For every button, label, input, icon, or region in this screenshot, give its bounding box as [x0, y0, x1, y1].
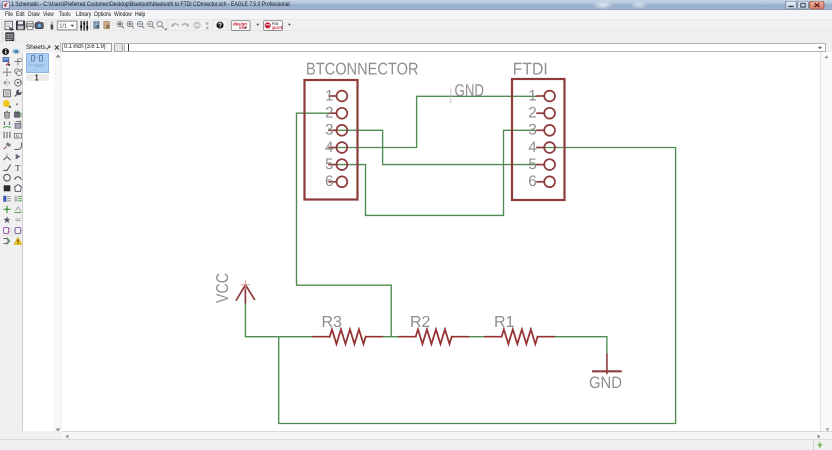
FTDI pin 4: [537, 142, 555, 153]
sheets panel: [23, 52, 61, 431]
icon rotate: [15, 79, 22, 86]
icon zoom select: [148, 21, 155, 28]
button designlink: [231, 20, 250, 30]
icon net: [14, 196, 22, 202]
icon image: [35, 21, 43, 28]
icon mark: [15, 58, 22, 65]
wire R3 to R2: [382, 336, 399, 338]
icon attribute: [4, 216, 11, 223]
icon redo: [182, 23, 189, 26]
BTCONNECTOR pin 5: [329, 159, 347, 170]
icon grid blue: [94, 21, 99, 28]
icon rect: [4, 185, 11, 191]
icon mirror: [4, 79, 11, 86]
svg-text:R2: R2: [410, 314, 431, 331]
coordinate box: [62, 43, 112, 52]
svg-text:GND: GND: [455, 81, 485, 100]
svg-text:3: 3: [325, 122, 334, 139]
svg-text:5: 5: [528, 156, 537, 173]
icon bus: [3, 196, 11, 202]
sheets scrollbar: [54, 52, 62, 431]
FTDI pin 2: [537, 108, 555, 119]
FTDI pin 3: [537, 125, 555, 136]
svg-text:1/1: 1/1: [59, 23, 67, 29]
svg-text:6: 6: [325, 173, 334, 190]
resistor R3: [313, 329, 382, 344]
icon replace: [15, 121, 21, 128]
icon errors: [14, 237, 22, 244]
icon cut: [3, 100, 11, 108]
icon smash: [4, 142, 11, 149]
icon copy: [15, 69, 22, 76]
icon group: [4, 90, 11, 97]
icon use: [51, 21, 54, 29]
icon save: [16, 21, 25, 30]
wire FTDI pin4 bottom loop: [279, 148, 676, 424]
icon polygon: [15, 185, 22, 192]
svg-text:R1: R1: [494, 314, 515, 331]
window buttons: [785, 1, 825, 10]
icon name: [15, 133, 22, 138]
icon add: [15, 111, 22, 118]
svg-text:BTCONNECTOR: BTCONNECTOR: [306, 60, 419, 79]
icon print: [26, 21, 34, 29]
icon split: [4, 154, 11, 161]
icon dimension: [16, 219, 21, 221]
icon change: [15, 90, 21, 96]
icon layers: [80, 21, 88, 30]
thumbnail: [26, 53, 49, 73]
resistor R2: [399, 329, 468, 344]
icon move: [3, 68, 12, 77]
command line: [124, 43, 826, 52]
svg-text:4: 4: [528, 139, 537, 156]
icon wire: [3, 164, 10, 170]
svg-text:FTDI: FTDI: [513, 60, 548, 79]
button pcbquote: [264, 20, 283, 30]
svg-text:1: 1: [528, 87, 537, 104]
svg-text:VCC: VCC: [213, 273, 232, 303]
resistor R1: [485, 329, 554, 344]
canvas vertical scrollbar: [820, 52, 832, 431]
connector J1 BTCONNECTOR box: [305, 80, 358, 200]
sheet combo: [57, 21, 77, 30]
FTDI pin 5: [537, 159, 555, 170]
wire GND net: BT pin4 to FTDI pin1: [329, 96, 537, 147]
icon delete: [4, 111, 9, 118]
icon zoom in: [127, 21, 134, 28]
toolbar row 1: [0, 19, 832, 32]
icon label: [15, 207, 22, 213]
ground symbol GND: [593, 354, 620, 373]
icon zoom redraw: [157, 21, 168, 30]
icon zoom fit: [117, 21, 124, 28]
small button: [114, 43, 123, 52]
green lightning: [816, 441, 824, 449]
icon go: [206, 22, 209, 29]
info icon: [2, 48, 22, 56]
BTCONNECTOR pin 6: [329, 176, 347, 187]
icon stop: [193, 21, 200, 28]
VCC origin cross: [241, 281, 249, 289]
icon miter: [15, 143, 22, 150]
BTCONNECTOR pin 2: [329, 108, 347, 119]
svg-text:4: 4: [325, 139, 334, 156]
schematic canvas: [62, 52, 820, 431]
icon gateswap: [3, 132, 11, 139]
svg-text:1: 1: [325, 87, 334, 104]
connector J2 FTDI box: [512, 79, 565, 200]
svg-text:2: 2: [325, 105, 334, 122]
icon help: [217, 21, 224, 28]
icon arc: [15, 177, 22, 180]
toolbar row 2: [0, 31, 832, 42]
BTCONNECTOR pin 3: [329, 125, 347, 136]
wire VCC to R3: [245, 303, 313, 337]
icon junction: [3, 206, 10, 213]
tab / command row: [0, 42, 832, 52]
svg-text:5: 5: [325, 156, 334, 173]
FTDI pin 6: [537, 176, 555, 187]
wire R1 to GND: [554, 337, 607, 355]
svg-text:R3: R3: [322, 314, 343, 331]
icon zoom out: [137, 21, 144, 28]
menu bar: [0, 10, 832, 19]
wire BT pin5 to FTDI pin3: [329, 130, 537, 215]
status bar: [0, 439, 832, 450]
BTCONNECTOR pin 1: [329, 91, 347, 102]
icon circle: [4, 174, 11, 181]
icon undo: [171, 23, 178, 26]
svg-text:3: 3: [528, 122, 537, 139]
net label origin tick: [450, 89, 452, 104]
FTDI pin 1: [537, 91, 555, 102]
svg-text:QUOTE: QUOTE: [272, 25, 283, 29]
eagle app icon: [2, 1, 10, 9]
icon drc: [4, 238, 10, 245]
icon erc2: [14, 228, 22, 234]
svg-text:T: T: [15, 163, 21, 173]
sheets header: [23, 42, 61, 52]
icon grid tan: [104, 21, 110, 28]
title bar: [0, 0, 832, 10]
icon text: [15, 163, 21, 173]
icon invoke: [16, 154, 21, 160]
wire BT pin3 to FTDI pin5: [329, 130, 537, 164]
horizontal scrollbar: [62, 431, 832, 439]
icon pinswap: [3, 122, 10, 129]
icon erc: [4, 228, 11, 234]
icon paste: [16, 103, 18, 105]
wire R2 to R1: [468, 336, 485, 338]
svg-text:2: 2: [528, 105, 537, 122]
supply VCC arrow: [236, 285, 254, 303]
BTCONNECTOR pin 4: [329, 142, 347, 153]
icon display: [3, 58, 11, 66]
svg-text:N: N: [16, 133, 19, 138]
svg-text:6: 6: [528, 173, 537, 190]
left command toolbar: [0, 52, 23, 431]
icon open: [5, 21, 14, 30]
svg-text:GND: GND: [589, 374, 622, 392]
wire BT pin2 to VCC net junction: [297, 113, 392, 337]
